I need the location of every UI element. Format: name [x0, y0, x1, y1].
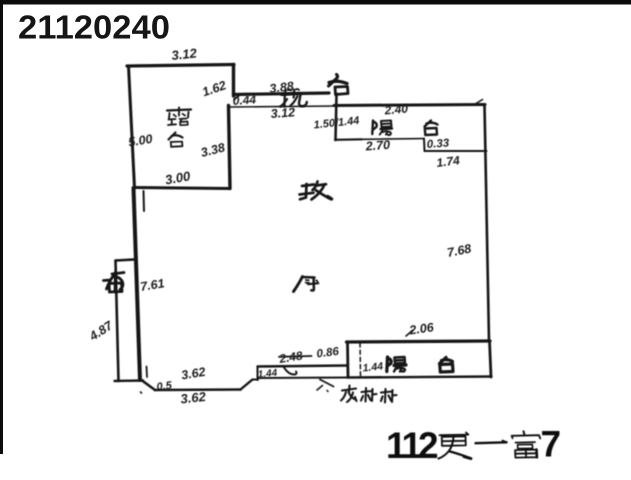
svg-text:2.48: 2.48	[277, 348, 304, 366]
svg-text:1.74: 1.74	[436, 153, 461, 170]
svg-text:3.62: 3.62	[180, 365, 206, 383]
svg-text:3.12: 3.12	[270, 105, 295, 121]
svg-text:3.00: 3.00	[164, 168, 192, 187]
svg-text:0.33: 0.33	[426, 137, 450, 151]
svg-text:1.44: 1.44	[362, 360, 384, 374]
svg-text:2.40: 2.40	[383, 101, 409, 117]
svg-text:2.06: 2.06	[407, 320, 435, 338]
svg-text:0.44: 0.44	[232, 92, 257, 108]
svg-text:7.61: 7.61	[139, 276, 165, 294]
svg-text:3.12: 3.12	[171, 45, 198, 63]
svg-text:4.87: 4.87	[86, 318, 116, 344]
svg-text:0.5: 0.5	[156, 380, 174, 394]
svg-text:0.86: 0.86	[316, 346, 340, 361]
svg-text:5.00: 5.00	[127, 132, 153, 150]
svg-text:7.68: 7.68	[446, 242, 473, 260]
svg-text:21120240: 21120240	[18, 9, 170, 46]
svg-text:1.50/1.44: 1.50/1.44	[313, 115, 360, 132]
svg-text:3.62: 3.62	[180, 389, 207, 407]
svg-text:7: 7	[541, 424, 562, 465]
svg-text:1.62: 1.62	[200, 78, 228, 99]
svg-text:1.44: 1.44	[257, 368, 278, 381]
svg-text:2.70: 2.70	[364, 138, 390, 154]
svg-text:2: 2	[418, 425, 439, 466]
svg-text:3.38: 3.38	[199, 140, 226, 159]
